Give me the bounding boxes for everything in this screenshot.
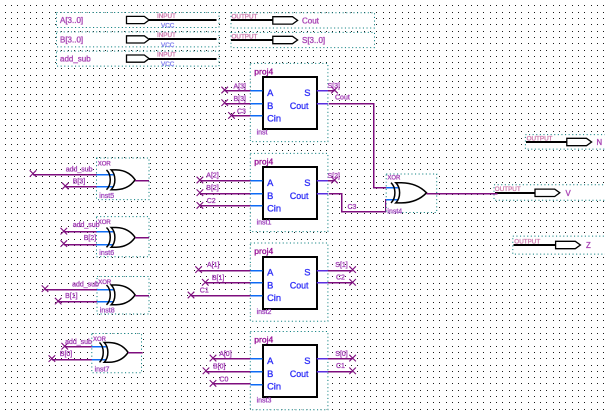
svg-text:proj4: proj4 (254, 246, 273, 256)
svg-text:Cout: Cout (290, 191, 309, 201)
svg-text:Cout: Cout (290, 281, 309, 291)
svg-text:inst4: inst4 (387, 209, 402, 216)
svg-text:add_sub: add_sub (65, 339, 92, 346)
svg-text:A[1]: A[1] (207, 262, 220, 269)
svg-text:B[3..0]: B[3..0] (60, 35, 83, 44)
svg-text:Cin: Cin (267, 293, 281, 303)
svg-text:inst6: inst6 (99, 250, 114, 257)
svg-text:N: N (597, 138, 603, 147)
svg-text:A[3..0]: A[3..0] (60, 16, 83, 25)
svg-text:B: B (267, 191, 273, 201)
svg-text:Cout: Cout (302, 16, 320, 25)
svg-text:Cout: Cout (335, 95, 350, 102)
svg-text:B: B (267, 369, 273, 379)
svg-text:C2: C2 (336, 275, 345, 282)
svg-text:B[0]: B[0] (60, 351, 73, 358)
svg-text:A[0]: A[0] (219, 351, 232, 358)
svg-text:C1: C1 (336, 363, 345, 370)
svg-text:A: A (267, 356, 274, 366)
svg-text:proj4: proj4 (254, 66, 273, 76)
svg-text:inst8: inst8 (100, 308, 115, 315)
svg-text:A: A (267, 178, 274, 188)
svg-text:VCC: VCC (161, 61, 175, 68)
svg-text:INPUT: INPUT (157, 51, 176, 58)
svg-text:B[0]: B[0] (213, 364, 226, 371)
svg-text:A[2]: A[2] (206, 172, 219, 179)
svg-text:C3: C3 (237, 109, 246, 116)
svg-text:proj4: proj4 (254, 335, 273, 345)
svg-text:proj4: proj4 (254, 156, 273, 166)
svg-text:A: A (267, 88, 274, 98)
svg-text:XOR: XOR (98, 220, 112, 226)
svg-text:C1: C1 (200, 288, 209, 295)
svg-text:INPUT: INPUT (157, 13, 176, 20)
svg-text:Cin: Cin (267, 114, 281, 124)
svg-text:Cout: Cout (290, 101, 309, 111)
svg-text:B: B (267, 281, 273, 291)
svg-text:VCC: VCC (161, 22, 175, 29)
svg-text:S[0]: S[0] (335, 351, 348, 358)
svg-text:S[3]: S[3] (328, 83, 341, 90)
svg-text:Cin: Cin (267, 382, 281, 392)
svg-text:B[1]: B[1] (65, 293, 78, 300)
svg-text:C3: C3 (348, 204, 357, 211)
svg-text:Cin: Cin (267, 204, 281, 214)
svg-text:add_sub: add_sub (72, 282, 99, 289)
svg-text:B[3]: B[3] (234, 96, 247, 103)
svg-text:S: S (304, 88, 310, 98)
svg-text:A[3]: A[3] (234, 84, 247, 91)
svg-text:add_sub: add_sub (73, 222, 100, 229)
svg-text:B: B (267, 101, 273, 111)
svg-text:S[2]: S[2] (328, 173, 341, 180)
svg-text:S[3..0]: S[3..0] (302, 36, 325, 45)
svg-text:VCC: VCC (161, 42, 175, 49)
svg-text:S[1]: S[1] (335, 262, 348, 269)
svg-text:inst2: inst2 (257, 309, 272, 316)
svg-text:inst5: inst5 (99, 193, 114, 200)
svg-text:C0: C0 (219, 376, 228, 383)
svg-text:B[3]: B[3] (73, 178, 86, 185)
svg-text:B[2]: B[2] (206, 185, 219, 192)
svg-text:inst1: inst1 (257, 220, 272, 227)
svg-text:XOR: XOR (98, 162, 112, 168)
svg-text:B[1]: B[1] (212, 275, 225, 282)
svg-text:S: S (304, 178, 310, 188)
svg-text:B[2]: B[2] (84, 235, 97, 242)
svg-text:V: V (566, 189, 572, 198)
svg-text:Z: Z (586, 241, 591, 250)
svg-text:Cout: Cout (290, 369, 309, 379)
svg-text:XOR: XOR (98, 280, 112, 286)
svg-text:INPUT: INPUT (157, 32, 176, 39)
svg-text:XOR: XOR (387, 176, 401, 182)
svg-text:add_sub: add_sub (66, 166, 93, 173)
svg-text:add_sub: add_sub (60, 55, 91, 64)
svg-text:inst3: inst3 (257, 398, 272, 405)
svg-text:S: S (304, 356, 310, 366)
svg-text:A: A (267, 268, 274, 278)
svg-text:inst: inst (257, 130, 268, 137)
svg-text:S: S (304, 268, 310, 278)
svg-text:C2: C2 (207, 198, 216, 205)
svg-text:inst7: inst7 (95, 366, 110, 373)
